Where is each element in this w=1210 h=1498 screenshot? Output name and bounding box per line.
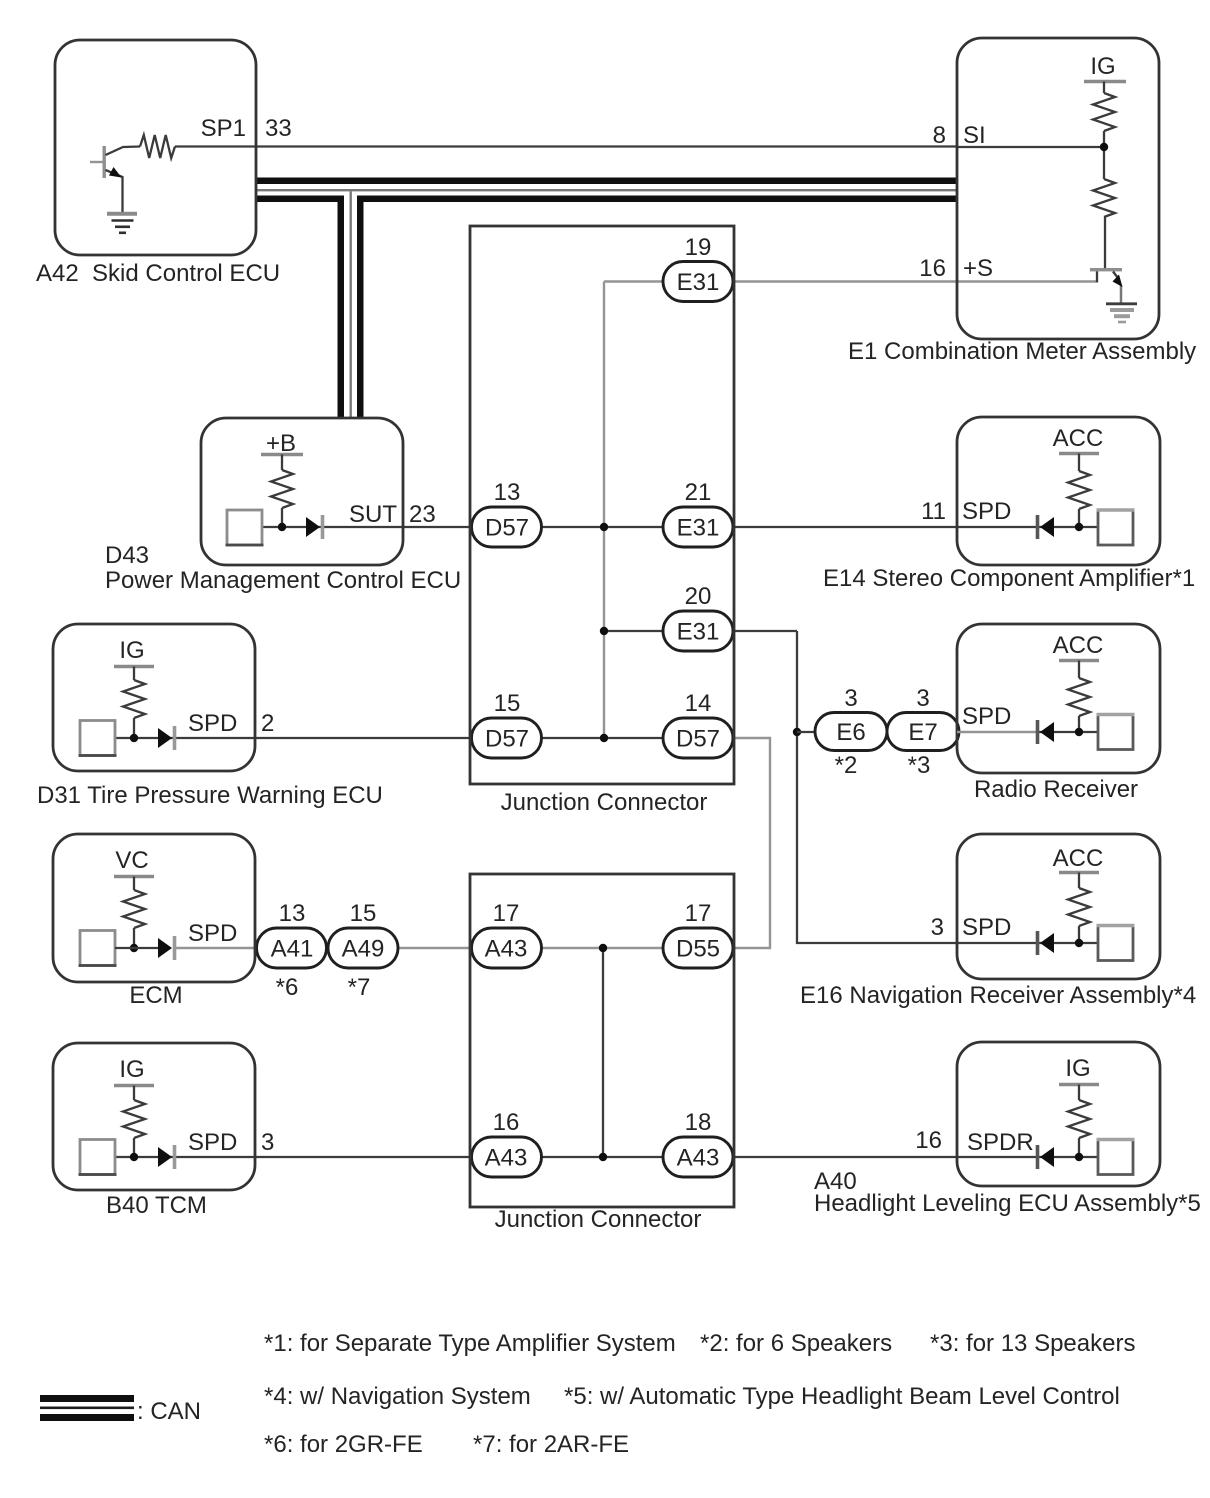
wire E31-19 stub (gray): [604, 280, 664, 282]
wire diode to square (E16): [1039, 942, 1098, 944]
node dot JC1 row20: [600, 627, 608, 635]
svg-text:D31 Tire Pressure Warning ECU: D31 Tire Pressure Warning ECU: [37, 782, 383, 809]
power rail bar (E1): [1084, 80, 1126, 83]
node dot (Radio): [1075, 728, 1083, 736]
transistor Q (E1) emitter lead: [1113, 272, 1118, 279]
svg-text:A43: A43: [677, 1145, 720, 1172]
svg-text:B40 TCM: B40 TCM: [106, 1192, 207, 1219]
svg-text:IG: IG: [119, 1056, 144, 1083]
box A40: [957, 1042, 1160, 1186]
wire IG to resistor (D31): [133, 667, 135, 681]
transistor Q (A42) emitter arrow: [109, 167, 122, 178]
wire E31-20 vertical drop to E16: [797, 631, 957, 943]
wire CAN branch left thick vertical: [338, 196, 345, 419]
junction connector 2 box: [470, 874, 734, 1207]
power rail bar (A40): [1059, 1083, 1099, 1086]
wire ECM SPD to A41/A49 to JC2 (gray): [176, 947, 471, 949]
connector square (B40): [80, 1140, 115, 1175]
power rail bar (D31): [114, 665, 154, 668]
wire D57-13 to E31-21: [541, 526, 664, 528]
transistor Q (E1) emitter arrow: [1113, 275, 1123, 288]
diode (ECM): [158, 936, 175, 960]
wire R1 to node (E1): [1103, 131, 1105, 179]
wire IG to resistor (B40): [133, 1086, 135, 1101]
connector D57 pin13: [472, 507, 542, 547]
legend CAN thick bar upper: [40, 1395, 134, 1402]
node dot (D31): [130, 734, 138, 742]
wire resistor to node (D43): [281, 508, 283, 527]
svg-text:16: 16: [493, 1109, 520, 1136]
svg-text:SPD: SPD: [188, 1129, 237, 1156]
svg-text:18: 18: [685, 1109, 712, 1136]
wire branch to E6/E7 pills: [797, 731, 816, 733]
box E1: [957, 38, 1159, 339]
connector square (E14): [1098, 510, 1133, 545]
svg-text:A41: A41: [271, 936, 314, 963]
svg-text:D57: D57: [485, 515, 529, 542]
transistor Q (A42) base bar: [103, 146, 106, 178]
svg-text:ECM: ECM: [129, 982, 182, 1009]
svg-text:E1 Combination Meter Assembly: E1 Combination Meter Assembly: [848, 338, 1196, 365]
svg-text:Junction Connector: Junction Connector: [501, 789, 708, 816]
svg-text:3: 3: [844, 685, 857, 712]
svg-text:*6: for 2GR-FE: *6: for 2GR-FE: [264, 1431, 423, 1458]
wire ACC to resistor (E14): [1078, 454, 1080, 472]
svg-text:SI: SI: [963, 122, 986, 149]
wire A43-18 to A40 pin 16: [732, 1156, 957, 1158]
connector A43 pin16: [472, 1137, 542, 1177]
wire diode to square (A40): [1039, 1156, 1098, 1158]
svg-text:*5: w/ Automatic Type Headligh: *5: w/ Automatic Type Headlight Beam Lev…: [564, 1383, 1120, 1410]
resistor (Radio): [1068, 678, 1090, 716]
node dot (E14): [1075, 523, 1083, 531]
wire D57-15 to D57-14: [541, 737, 664, 739]
transistor Q (A42) collector lead: [106, 147, 141, 156]
diode (D31): [158, 726, 175, 750]
power rail bar (E16): [1059, 871, 1099, 874]
junction connector 1 box: [470, 226, 734, 784]
resistor (E14): [1068, 471, 1090, 509]
diode (A40): [1038, 1145, 1055, 1169]
resistor R1 (E1): [1093, 93, 1115, 131]
connector square (D31): [80, 721, 115, 756]
svg-text:A43: A43: [485, 936, 528, 963]
diode (D43): [306, 515, 323, 539]
wire R2 to transistor collector (E1): [1104, 217, 1106, 268]
connector E31 pin21: [663, 507, 733, 547]
wire IG to resistor (A40): [1078, 1085, 1080, 1101]
wire D57-14 to D55-17 U-route (gray): [732, 738, 770, 948]
wire A43-17 to D55-17 (gray): [541, 947, 664, 949]
svg-text:VC: VC: [115, 847, 148, 874]
connector A41 pin13: [257, 928, 327, 968]
wire VC to resistor (ECM): [133, 877, 135, 891]
svg-text:3: 3: [261, 1129, 274, 1156]
svg-text:Power Management Control ECU: Power Management Control ECU: [105, 567, 461, 594]
svg-text:SPD: SPD: [188, 710, 237, 737]
connector square (A40): [1098, 1140, 1133, 1175]
connector D55 pin17: [663, 928, 733, 968]
svg-text:21: 21: [685, 479, 712, 506]
wire E31-20 branch right: [732, 630, 797, 632]
resistor (D43): [271, 470, 293, 508]
svg-text:IG: IG: [1065, 1055, 1090, 1082]
connector E31 pin20: [663, 611, 733, 651]
svg-text:IG: IG: [1090, 53, 1115, 80]
ground (E1): [1106, 304, 1137, 322]
connector A43 pin17: [472, 928, 542, 968]
svg-text:23: 23: [409, 501, 436, 528]
node dot (ECM): [130, 944, 138, 952]
svg-text:19: 19: [685, 234, 712, 261]
svg-text:11: 11: [921, 498, 946, 525]
diode (E16): [1038, 931, 1055, 955]
svg-text:A43: A43: [485, 1145, 528, 1172]
svg-text:*2: for 6 Speakers: *2: for 6 Speakers: [700, 1330, 892, 1357]
box D43: [201, 418, 403, 565]
svg-text:17: 17: [493, 900, 520, 927]
transistor Q (A42) base lead: [90, 161, 103, 163]
svg-text:A42 Skid Control ECU: A42 Skid Control ECU: [36, 260, 280, 287]
node dot (D43): [278, 523, 286, 531]
svg-text:: CAN: : CAN: [137, 1398, 201, 1425]
diode (B40): [158, 1145, 175, 1169]
svg-text:13: 13: [279, 900, 306, 927]
svg-text:*6: *6: [276, 974, 299, 1001]
wire resistor to node (A40): [1078, 1138, 1080, 1157]
box D31: [53, 624, 255, 771]
svg-text:SUT: SUT: [349, 501, 397, 528]
wire CAN trunk lower thick line left segment: [256, 196, 344, 203]
svg-text:D55: D55: [676, 936, 720, 963]
svg-text:ACC: ACC: [1053, 632, 1104, 659]
wire CAN trunk lower thick line right segment: [357, 196, 957, 203]
wire B40 SPD to A43-16: [115, 1156, 471, 1158]
node dot (E16): [1075, 939, 1083, 947]
wire IG to resistor (E1): [1103, 82, 1105, 94]
svg-text:20: 20: [685, 583, 712, 610]
svg-text:15: 15: [350, 900, 377, 927]
connector D57 pin14: [663, 718, 733, 758]
node dot JC2 bottom: [599, 1153, 607, 1161]
svg-text:SPD: SPD: [188, 920, 237, 947]
svg-text:*1: for Separate Type Amplifie: *1: for Separate Type Amplifier System: [264, 1330, 676, 1357]
power rail bar (E14): [1059, 452, 1099, 455]
box E16: [957, 834, 1160, 979]
svg-text:SPDR: SPDR: [967, 1129, 1034, 1156]
svg-text:E31: E31: [677, 619, 720, 646]
wire resistor to node (B40): [133, 1138, 135, 1157]
connector E7 pin3: [887, 713, 959, 751]
node dot JC2 top: [599, 944, 607, 952]
svg-text:16: 16: [915, 1127, 942, 1154]
node dot (A40): [1075, 1153, 1083, 1161]
svg-text:E14 Stereo Component Amplifier: E14 Stereo Component Amplifier*1: [823, 565, 1195, 592]
box E14: [957, 417, 1160, 565]
wire SPDR inside A40: [957, 1156, 1036, 1158]
svg-text:*7: for 2AR-FE: *7: for 2AR-FE: [473, 1431, 629, 1458]
svg-text:SPD: SPD: [962, 703, 1011, 730]
connector A49 pin15: [328, 928, 398, 968]
connector D57 pin15: [472, 718, 542, 758]
wire +S inside E1 (gray): [957, 280, 1096, 282]
wire CAN branch middle thin vertical: [350, 191, 352, 418]
svg-text:ACC: ACC: [1053, 425, 1104, 452]
wire square to diode (ECM): [115, 947, 158, 949]
wire SPD inside E14: [957, 526, 1036, 528]
wire E31-19 to +S pin (gray): [732, 280, 957, 282]
connector E6 pin3: [815, 713, 887, 751]
power rail bar (D43): [261, 453, 303, 456]
svg-text:13: 13: [494, 479, 521, 506]
legend CAN thin bar middle: [40, 1407, 134, 1410]
transistor Q (E1) base bar: [1090, 268, 1122, 271]
svg-text:*4: w/ Navigation System: *4: w/ Navigation System: [264, 1383, 531, 1410]
svg-text:14: 14: [685, 690, 712, 717]
svg-text:D57: D57: [485, 726, 529, 753]
wire D43 SUT to D57-13: [261, 526, 471, 528]
svg-text:15: 15: [494, 690, 521, 717]
resistor (B40): [123, 1100, 145, 1138]
svg-text:16: 16: [919, 255, 946, 282]
svg-text:E6: E6: [836, 719, 865, 746]
wire E31-21 to E14 pin 11: [732, 526, 957, 528]
node dot (B40): [130, 1153, 138, 1161]
wire D31 SPD to D57-15: [115, 737, 471, 739]
wire ACC to resistor (Radio): [1078, 661, 1080, 679]
connector E31 pin19: [663, 262, 733, 302]
wire CAN trunk middle thin line: [256, 189, 957, 191]
wire resistor to node (ECM): [133, 928, 135, 948]
connector square (ECM): [80, 931, 115, 966]
node dot JC1 row14: [600, 734, 608, 742]
wire +B to resistor (D43): [281, 455, 283, 471]
wire resistor to node (E14): [1078, 509, 1080, 527]
svg-text:D43: D43: [105, 542, 149, 569]
wire ACC to resistor (E16): [1078, 873, 1080, 889]
svg-text:33: 33: [265, 115, 292, 142]
node dot SI (E1): [1100, 143, 1108, 151]
wire E31-20 stub: [604, 630, 664, 632]
resistor (A40): [1068, 1100, 1090, 1138]
power rail bar (ECM): [114, 875, 154, 878]
wire diode to square (E14): [1039, 526, 1098, 528]
connector A43 pin18: [663, 1137, 733, 1177]
svg-text:3: 3: [916, 685, 929, 712]
svg-text:IG: IG: [119, 637, 144, 664]
wire CAN branch right thick vertical: [357, 196, 364, 419]
svg-text:2: 2: [261, 710, 274, 737]
svg-text:A49: A49: [342, 936, 385, 963]
svg-text:*2: *2: [835, 752, 858, 779]
svg-text:Headlight Leveling ECU Assembl: Headlight Leveling ECU Assembly*5: [814, 1190, 1201, 1217]
connector square (E16): [1098, 926, 1133, 961]
wire SPD inside Radio (gray): [957, 731, 1036, 733]
wire diode to square (Radio): [1039, 731, 1098, 733]
svg-text:SPD: SPD: [962, 498, 1011, 525]
svg-text:8: 8: [933, 122, 946, 149]
node dot at E6 branch: [793, 728, 801, 736]
wire SP1 to SI net: [175, 145, 957, 147]
diode (E14): [1038, 515, 1055, 539]
box ECM: [53, 834, 255, 982]
wire resistor to node (D31): [133, 718, 135, 738]
resistor R2 (E1): [1093, 179, 1115, 217]
box B40: [53, 1043, 255, 1190]
svg-text:SPD: SPD: [962, 914, 1011, 941]
svg-text:*3: *3: [908, 752, 931, 779]
wire resistor to node (E16): [1078, 926, 1080, 943]
svg-text:E31: E31: [677, 269, 720, 296]
svg-text:E7: E7: [908, 719, 937, 746]
svg-text:*3: for 13 Speakers: *3: for 13 Speakers: [930, 1330, 1135, 1357]
wire JC1 internal vertical bus (gray): [603, 282, 605, 739]
svg-text:+S: +S: [963, 255, 993, 282]
transistor Q (A42) emitter lead: [106, 170, 123, 213]
legend CAN thick bar lower: [40, 1414, 134, 1421]
connector square (D43): [227, 510, 262, 545]
svg-text:Junction Connector: Junction Connector: [495, 1206, 702, 1233]
wire resistor to node (Radio): [1078, 716, 1080, 732]
svg-text:ACC: ACC: [1053, 845, 1104, 872]
wire SI inside E1: [957, 146, 1104, 148]
svg-text:SP1: SP1: [201, 115, 246, 142]
wire E1 transistor base connector: [1096, 271, 1098, 283]
ground (A42): [107, 214, 137, 233]
svg-text:E16 Navigation Receiver Assemb: E16 Navigation Receiver Assembly*4: [800, 982, 1196, 1009]
resistor (A42 collector): [140, 135, 175, 158]
svg-text:E31: E31: [677, 515, 720, 542]
svg-text:3: 3: [931, 914, 944, 941]
wire SPD inside E16: [957, 942, 1036, 944]
svg-text:D57: D57: [676, 726, 720, 753]
connector square (Radio): [1098, 715, 1133, 750]
svg-text:17: 17: [685, 900, 712, 927]
box Radio Receiver: [957, 624, 1160, 773]
svg-text:*7: *7: [348, 974, 371, 1001]
wire A43-16 to A43-18: [541, 1156, 664, 1158]
resistor (E16): [1068, 888, 1090, 926]
box A42: [55, 40, 256, 255]
node dot JC1 row21: [600, 523, 608, 531]
wire JC2 internal vertical bus: [602, 948, 604, 1157]
power rail bar (B40): [114, 1084, 154, 1087]
svg-text:Radio Receiver: Radio Receiver: [974, 776, 1138, 803]
resistor (ECM): [123, 890, 145, 928]
power rail bar (Radio): [1059, 659, 1099, 662]
wire CAN trunk upper thick line: [256, 178, 957, 185]
diode (Radio): [1038, 720, 1055, 744]
resistor (D31): [123, 680, 145, 718]
